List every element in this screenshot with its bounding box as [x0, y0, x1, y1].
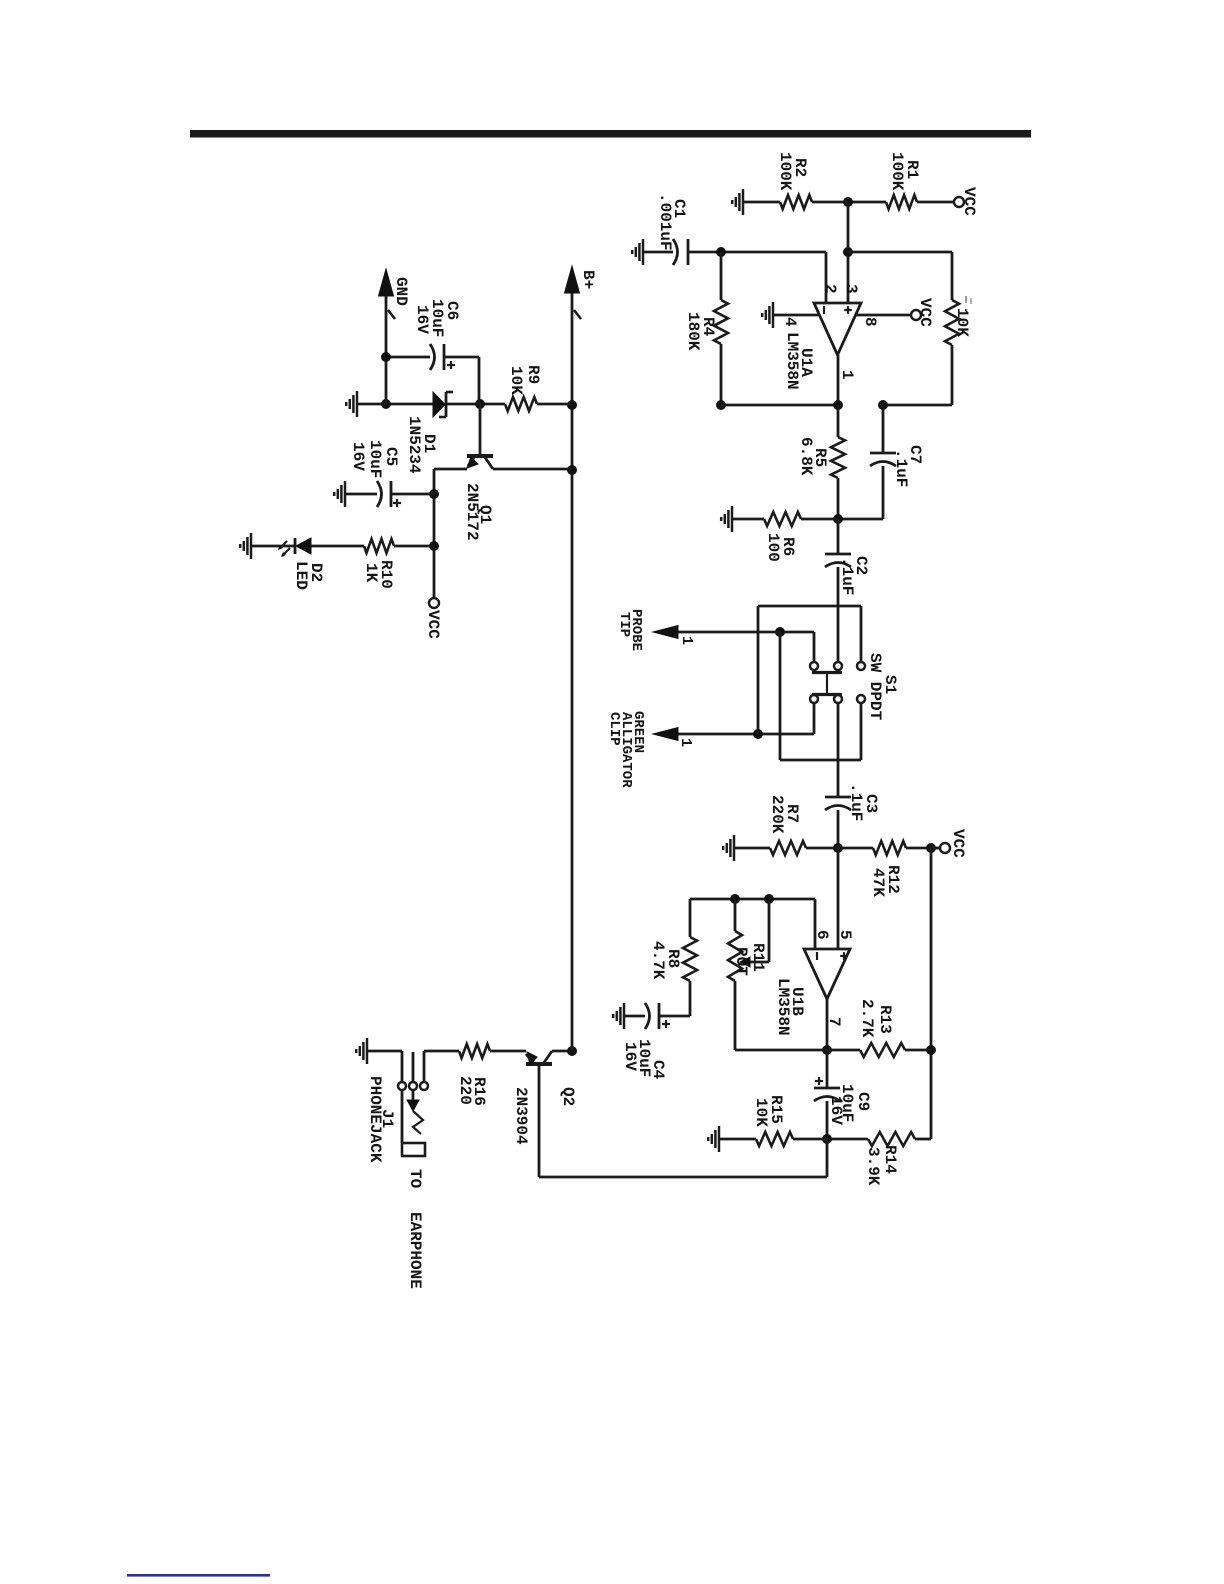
svg-text:VCC: VCC	[949, 829, 967, 858]
resistor R12 47K	[838, 847, 873, 850]
wire alligator line	[678, 733, 814, 736]
svg-text:.1uF: .1uF	[892, 449, 910, 487]
svg-text:1N5234: 1N5234	[405, 416, 423, 474]
capacitor C7 .1uF	[882, 405, 885, 453]
svg-text:.1uF: .1uF	[847, 783, 865, 821]
node R10 junction	[429, 541, 439, 551]
J1 sleeve contact	[401, 1051, 404, 1081]
node R4 top	[716, 247, 726, 257]
svg-text:3.9K: 3.9K	[864, 1147, 882, 1186]
wire Q2 emitter	[490, 1050, 526, 1053]
node VCC terminal (R1 top)	[954, 197, 964, 207]
resistor R2 100K	[812, 201, 848, 204]
ground (C4)	[623, 1003, 626, 1029]
resistor R6 100	[801, 518, 838, 521]
wire pin2 input	[825, 252, 828, 303]
resistor R16 220	[459, 1044, 490, 1058]
potentiometer R11 POT	[734, 899, 737, 931]
svg-text:8: 8	[861, 317, 879, 327]
wire C7 to R5 node	[838, 518, 883, 521]
wire alligator stub	[813, 703, 816, 734]
svg-text:4: 4	[781, 317, 799, 327]
svg-text:.001uF: .001uF	[656, 193, 674, 251]
wire feedback to output node	[883, 404, 952, 407]
svg-text:2.7K: 2.7K	[858, 999, 876, 1038]
node VCC terminal (Q1 emitter)	[429, 598, 439, 608]
svg-text:6.8K: 6.8K	[797, 437, 815, 476]
capacitor C1 .001uF	[688, 251, 826, 254]
node R6 top	[833, 514, 843, 524]
svg-text:6: 6	[813, 930, 831, 940]
svg-text:CLIP: CLIP	[606, 712, 622, 746]
S1 section B contacts	[857, 695, 865, 703]
resistor R14 3.9K	[915, 1138, 931, 1141]
S1 mechanical link	[826, 674, 828, 694]
B+ rail	[571, 293, 574, 1051]
wire output pin 7	[826, 999, 829, 1050]
wire output pin 1	[837, 355, 840, 405]
resistor R10 1K	[394, 545, 434, 548]
R11 wiper arrow	[768, 899, 771, 962]
node divider junction	[843, 197, 853, 207]
probe tip arrow terminal	[653, 626, 678, 639]
node C6 bottom	[381, 352, 391, 362]
wire output rail down	[721, 404, 838, 407]
wire probe line	[780, 631, 814, 634]
svg-text:2N3904: 2N3904	[512, 1087, 530, 1145]
svg-text:1: 1	[678, 636, 695, 645]
node Q1 collector rail junction	[567, 465, 577, 475]
node R11 junction	[730, 894, 740, 904]
svg-text:100K: 100K	[776, 152, 794, 191]
wire crossover probe to section B	[860, 703, 863, 760]
wire crossover alligator to section A	[860, 606, 863, 661]
svg-text:VCC: VCC	[424, 610, 442, 639]
node probe junction	[775, 627, 785, 637]
svg-text:LM358N: LM358N	[783, 332, 801, 390]
capacitor C6 10uF 16V	[478, 357, 481, 404]
ground (R15)	[718, 1126, 721, 1152]
svg-text:10K: 10K	[507, 366, 525, 395]
ground (pin4)	[772, 302, 775, 328]
svg-text:10uF: 10uF	[366, 440, 384, 478]
capacitor C3 .1uF	[837, 761, 840, 797]
svg-text:SW DPDT: SW DPDT	[866, 653, 884, 721]
node U1B output	[822, 1045, 832, 1055]
ground (C5)	[344, 481, 347, 507]
capacitor C5 10uF 16V	[391, 493, 434, 496]
resistor R8 4.7K	[689, 899, 692, 937]
svg-text:16V: 16V	[827, 1096, 845, 1125]
svg-text:7: 7	[825, 1017, 843, 1027]
svg-text:PHONEJACK: PHONEJACK	[366, 1076, 384, 1163]
resistor R5 6.8K	[837, 405, 840, 437]
op-amp U1B LM358N	[804, 949, 850, 999]
svg-text:TO: TO	[406, 1169, 424, 1189]
wire R11 to output node	[735, 1049, 827, 1052]
S1 blade A	[812, 671, 842, 674]
zener diode D1 1N5234	[445, 403, 480, 406]
J1 tip spring	[412, 1090, 415, 1101]
capacitor C9 10uF 16V	[826, 1050, 829, 1088]
node D1 rail junction	[567, 400, 577, 410]
svg-text:16V: 16V	[349, 442, 367, 471]
S1 blade B	[812, 693, 842, 696]
resistor R9 10K	[537, 403, 572, 406]
S1 section A contacts	[857, 662, 865, 670]
svg-text:.1uF: .1uF	[838, 557, 856, 595]
page top rule	[190, 130, 1031, 138]
svg-text:R13: R13	[876, 1005, 894, 1034]
node GND line junction	[381, 399, 391, 409]
svg-text:16V: 16V	[621, 1042, 639, 1071]
node C7 top	[878, 400, 888, 410]
wire Q1 emitter	[434, 468, 467, 471]
node VCC terminal (pin8)	[911, 310, 921, 320]
node pin3 branch	[843, 247, 853, 257]
svg-text:R11: R11	[749, 943, 767, 972]
svg-text:GND: GND	[392, 277, 410, 306]
transistor Q1 2N5172	[479, 404, 482, 455]
svg-text:220: 220	[456, 1076, 474, 1105]
svg-text:LM358N: LM358N	[774, 978, 792, 1036]
node VCC terminal (R12)	[931, 847, 940, 850]
svg-text:100: 100	[764, 533, 782, 562]
svg-text:1: 1	[838, 370, 856, 380]
pin 4 ground lead	[773, 314, 819, 317]
node output	[833, 400, 843, 410]
resistor R3 10K feedback	[951, 252, 954, 300]
svg-text:220K: 220K	[768, 795, 786, 834]
B+ arrow terminal	[565, 266, 580, 293]
resistor R13 2.7K	[905, 1049, 931, 1052]
wire pin3 input	[847, 202, 850, 303]
svg-text:1: 1	[677, 738, 694, 747]
wire feedback riser	[848, 251, 952, 254]
capacitor C4 10uF 16V	[659, 1015, 690, 1018]
svg-text:5: 5	[836, 930, 854, 940]
resistor R1 100K	[917, 201, 954, 204]
ground (D1)	[356, 391, 359, 417]
resistor R7 220K	[806, 847, 838, 850]
svg-text:1K: 1K	[362, 563, 380, 583]
node C3 output	[833, 843, 843, 853]
node R13 top	[926, 1045, 936, 1055]
wire Q1 collector	[493, 468, 572, 471]
op-amp U1A LM358N	[814, 303, 861, 355]
svg-text:180K: 180K	[684, 312, 702, 351]
wire VCC rail	[930, 848, 933, 1139]
resistor R15 10K	[793, 1138, 827, 1141]
svg-text:10K: 10K	[953, 308, 971, 337]
J1 ring contact stub	[412, 1052, 415, 1081]
ground (R7)	[733, 835, 736, 861]
svg-text:2: 2	[821, 284, 839, 294]
node alligator junction	[753, 729, 763, 739]
node R4 / output rail corner	[716, 400, 726, 410]
svg-text:R14: R14	[881, 1145, 899, 1174]
node Q2 collector on B+ rail	[567, 1046, 577, 1056]
ground (D2)	[250, 533, 253, 559]
node C5 junction	[429, 489, 439, 499]
pin 8 VCC lead	[856, 314, 911, 317]
svg-text:10K: 10K	[752, 1098, 770, 1127]
svg-text:3: 3	[842, 284, 860, 294]
svg-text:VCC: VCC	[960, 187, 978, 216]
svg-text:LED: LED	[292, 561, 310, 590]
svg-text:TIP: TIP	[616, 612, 632, 637]
node wiper junction	[764, 894, 774, 904]
wire pin 6 input	[814, 899, 817, 949]
ground (R6)	[731, 506, 734, 532]
svg-text:R9: R9	[524, 365, 542, 384]
svg-text:EARPHONE: EARPHONE	[406, 1212, 424, 1289]
green alligator clip arrow terminal	[653, 728, 678, 741]
wire S1 output	[837, 703, 840, 761]
node VCC rail top	[926, 843, 936, 853]
J1 barrel	[401, 1090, 404, 1143]
svg-text:4.7K: 4.7K	[649, 941, 667, 980]
ground (C1)	[642, 239, 645, 265]
wire Q2 collector	[552, 1050, 572, 1053]
resistor R4 180K	[720, 252, 723, 300]
GND arrow terminal	[385, 296, 388, 404]
wire return to Q2 base	[826, 1139, 829, 1177]
svg-text:B+: B+	[579, 270, 597, 289]
node Q1 base junction	[475, 399, 485, 409]
wire probe stub	[813, 632, 816, 661]
svg-text:Q2: Q2	[559, 1087, 577, 1106]
svg-text:47K: 47K	[869, 868, 887, 897]
svg-text:2N5172: 2N5172	[463, 483, 481, 541]
wire pin 5 input	[837, 848, 840, 949]
page footer blue rule	[127, 1574, 270, 1577]
ground (J1)	[367, 1050, 402, 1053]
LED D2	[296, 538, 311, 554]
J1 tip contact	[423, 1051, 426, 1081]
node C9 bottom	[822, 1134, 832, 1144]
transistor Q2 2N3904	[526, 1062, 552, 1066]
svg-text:VCC: VCC	[916, 298, 934, 327]
ground (R2)	[742, 189, 745, 215]
capacitor C2 .1uF	[837, 519, 840, 554]
svg-text:16V: 16V	[413, 305, 431, 334]
svg-text:100K: 100K	[888, 152, 906, 191]
